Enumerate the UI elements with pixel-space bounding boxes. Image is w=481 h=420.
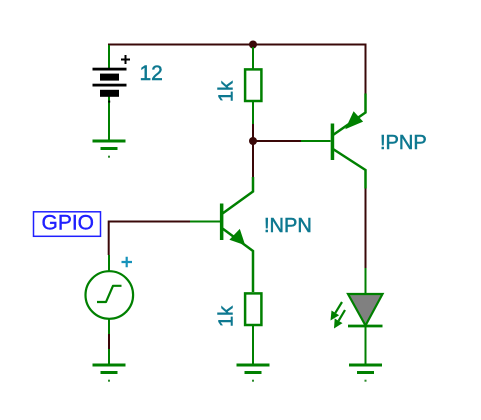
collector bbox=[333, 149, 366, 189]
battery plate thick 1 bbox=[100, 74, 119, 81]
wire top rail from battery to PNP emitter column bbox=[108, 45, 366, 95]
source waveform symbol bbox=[97, 286, 122, 302]
resistor R1 bbox=[245, 47, 261, 124]
wire source top stub bbox=[108, 255, 110, 272]
source V2 (signal source) bbox=[86, 255, 134, 364]
ground (LED) bbox=[349, 365, 382, 382]
emitter with arrow bbox=[223, 229, 254, 293]
light arrow 1 bbox=[335, 302, 342, 313]
PNP emitter arrowhead bbox=[345, 111, 363, 129]
wire junction down to NPN collector bbox=[252, 141, 254, 177]
transistor Q2 PNP bbox=[301, 94, 366, 189]
wire PNP base stub bbox=[301, 140, 331, 142]
battery pin dot bbox=[108, 101, 110, 103]
wire LED bottom lead bbox=[365, 326, 367, 364]
wire source ground stub bbox=[108, 349, 110, 364]
svg-text:!PNP: !PNP bbox=[380, 132, 427, 154]
LED D1 bbox=[331, 268, 383, 364]
wire junction to PNP base bbox=[253, 140, 302, 142]
wire battery top stub bbox=[108, 45, 110, 68]
ground (source) bbox=[93, 365, 126, 382]
source body circle bbox=[86, 271, 134, 319]
GPIO text box bbox=[34, 212, 101, 237]
NPN emitter arrowhead bbox=[229, 229, 245, 245]
wire LED top stub bbox=[365, 268, 367, 294]
resistor R2 bbox=[245, 293, 261, 364]
wire R1 bottom to mid junction bbox=[252, 124, 254, 141]
ground (R2) bbox=[237, 365, 270, 382]
transistor Q1 NPN bbox=[190, 177, 253, 292]
svg-text:12: 12 bbox=[140, 62, 163, 85]
wire R2 bottom lead bbox=[252, 326, 254, 364]
LED anode triangle bbox=[348, 294, 383, 326]
resistor R2 body box bbox=[245, 293, 261, 325]
LED cathode bar bbox=[348, 325, 383, 328]
svg-text:1k: 1k bbox=[216, 305, 238, 327]
wire GPIO node to NPN base and down to source bbox=[109, 222, 190, 256]
svg-text:!NPN: !NPN bbox=[264, 215, 312, 237]
svg-text:1k: 1k bbox=[216, 80, 238, 102]
battery plate thin 1 bbox=[93, 68, 127, 71]
battery V1 bbox=[93, 45, 131, 140]
wire PNP collector to LED anode bbox=[365, 189, 367, 269]
light arrow 2 bbox=[339, 310, 345, 321]
battery plus polarity mark bbox=[121, 55, 130, 64]
wire source bottom segment bbox=[108, 334, 110, 350]
wire R1 top stub bbox=[252, 47, 254, 69]
ground (battery) bbox=[93, 141, 126, 158]
wire battery bottom lead bbox=[108, 97, 110, 141]
emitter with arrow bbox=[333, 94, 366, 136]
battery plate thin 2 bbox=[93, 84, 127, 87]
node junction dot at rail over R1 bbox=[249, 41, 257, 49]
wire source bottom stub bbox=[108, 318, 110, 334]
resistor R1 body box bbox=[245, 69, 261, 101]
svg-text:GPIO: GPIO bbox=[42, 212, 95, 235]
battery plate thick 2 bbox=[100, 90, 119, 97]
plus sign of source bbox=[122, 257, 133, 268]
wire NPN base stub bbox=[190, 221, 220, 223]
PNP base bar bbox=[331, 124, 335, 161]
wire R1 bottom stub bbox=[252, 101, 254, 124]
collector bbox=[223, 177, 254, 214]
node junction dot mid (R1 bottom / PNP base / NPN collector) bbox=[249, 137, 257, 145]
NPN base bar bbox=[220, 204, 224, 241]
